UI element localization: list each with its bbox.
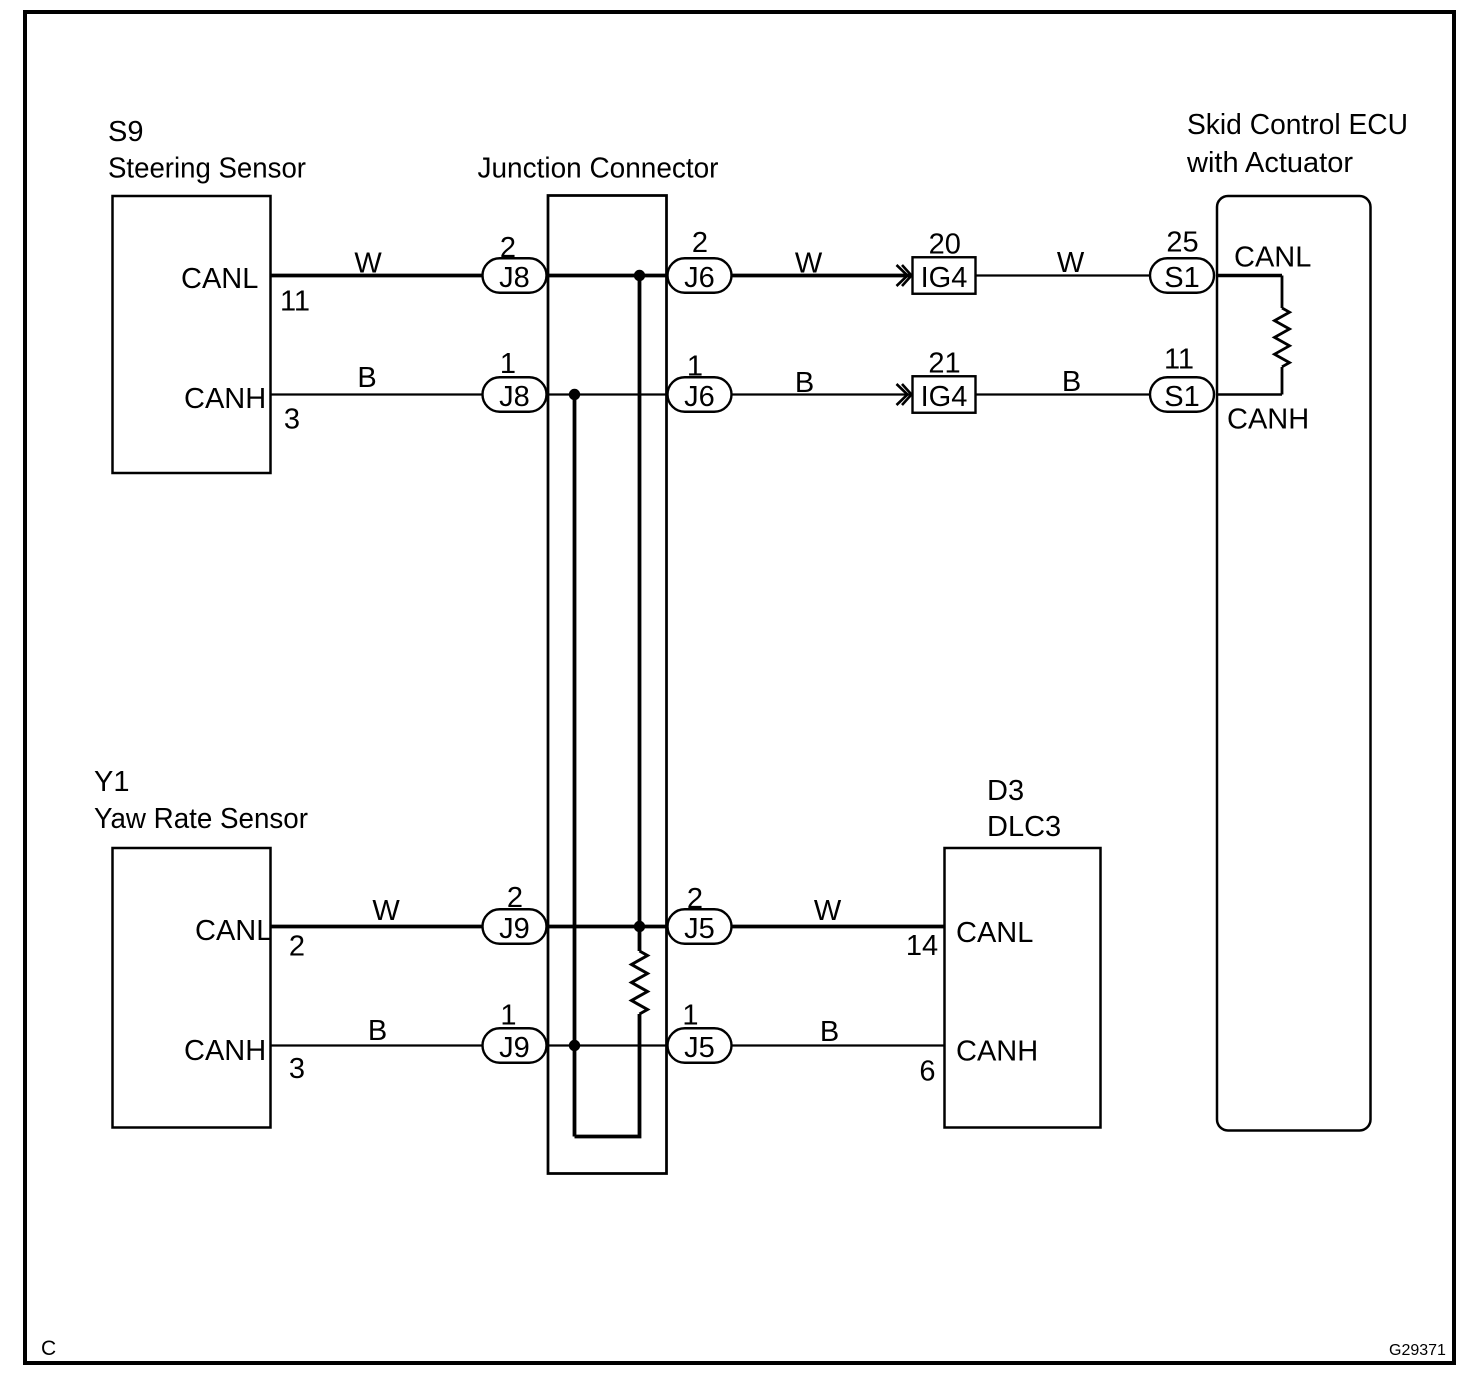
junction internal CANL bus wire (638, 276, 642, 952)
svg-text:25: 25 (1166, 226, 1198, 258)
svg-text:14: 14 (906, 930, 938, 962)
skid control ECU with actuator box (1186, 109, 1408, 1131)
svg-text:11: 11 (280, 285, 310, 317)
svg-text:3: 3 (289, 1053, 305, 1085)
svg-text:C: C (41, 1337, 56, 1360)
svg-text:2: 2 (500, 232, 516, 264)
wire W from J6 to IG4 pin 20 (731, 247, 911, 279)
connector IG4 pin 20 (913, 229, 976, 295)
steering sensor S9 box (108, 116, 306, 473)
Y1 pin 3 CANH label (184, 1035, 305, 1085)
svg-text:Junction Connector: Junction Connector (478, 152, 719, 184)
svg-text:CANL: CANL (195, 915, 272, 947)
wire B from IG4 to S1 pin 11 (977, 366, 1151, 398)
svg-text:IG4: IG4 (921, 262, 968, 294)
node dot J8-J6 CANL (634, 270, 645, 281)
svg-text:B: B (820, 1016, 839, 1048)
wire from J9 pin1 to J5 pin1 (546, 1044, 668, 1046)
DLC3 pin 6 CANH label (919, 1036, 1038, 1088)
S9 pin 3 CANH label (184, 383, 300, 435)
svg-text:B: B (1062, 366, 1081, 398)
svg-text:Skid Control ECU: Skid Control ECU (1187, 109, 1408, 141)
svg-text:20: 20 (929, 229, 961, 261)
svg-text:CANH: CANH (956, 1036, 1038, 1068)
node dot J9-J5 CANL (634, 921, 645, 932)
wire from J8 pin2 to J6 pin2 (546, 274, 668, 278)
Y1 pin 2 CANL label (195, 915, 305, 962)
wire W from J5 to DLC3 pin 14 (731, 895, 945, 927)
svg-text:2: 2 (507, 882, 523, 914)
ECU internal CANH wire (1216, 393, 1282, 395)
DLC3 pin 14 CANL label (906, 917, 1033, 962)
svg-text:J5: J5 (684, 913, 715, 945)
svg-text:W: W (795, 247, 823, 279)
svg-text:J5: J5 (684, 1032, 715, 1064)
svg-text:1: 1 (687, 351, 703, 383)
splice chevron into IG4 pin 20 (897, 265, 912, 286)
svg-text:1: 1 (500, 1000, 516, 1032)
svg-text:W: W (1057, 247, 1085, 279)
svg-text:W: W (354, 247, 382, 279)
svg-text:2: 2 (687, 883, 703, 915)
svg-text:IG4: IG4 (921, 381, 968, 413)
svg-text:S9: S9 (108, 116, 143, 148)
svg-text:B: B (795, 367, 814, 399)
svg-text:DLC3: DLC3 (987, 811, 1061, 843)
svg-text:CANL: CANL (956, 917, 1033, 949)
svg-text:CANH: CANH (1227, 404, 1309, 436)
svg-text:CANL: CANL (1234, 242, 1311, 274)
junction connector box (478, 152, 719, 1173)
DLC3 connector D3 box (945, 775, 1101, 1128)
wire W from S9 CANL to J8 (271, 247, 483, 279)
node dot J8-J6 CANH (569, 389, 580, 400)
node dot J9-J5 CANH (569, 1040, 580, 1051)
svg-text:1: 1 (500, 348, 516, 380)
connector J6 pin 1 (668, 351, 732, 414)
connector J9 pin 2 (483, 882, 547, 945)
connector IG4 pin 21 (913, 348, 976, 414)
svg-text:G29371: G29371 (1389, 1342, 1446, 1359)
connector S1 pin 11 (1150, 344, 1214, 414)
wire W from IG4 to S1 pin 25 (977, 247, 1151, 279)
svg-text:J6: J6 (684, 381, 715, 413)
svg-text:CANH: CANH (184, 1035, 266, 1067)
wire from J9 pin2 to J5 pin2 (546, 925, 668, 929)
resistor in skid control ECU (1275, 276, 1290, 395)
connector J8 pin 2 (483, 232, 547, 294)
svg-text:J8: J8 (499, 262, 530, 294)
svg-text:D3: D3 (987, 775, 1024, 807)
wire B from S9 CANH to J8 (271, 362, 483, 394)
svg-text:B: B (357, 362, 376, 394)
S9 pin 11 CANL label (181, 263, 310, 317)
svg-text:2: 2 (692, 227, 708, 259)
connector S1 pin 25 (1150, 226, 1214, 294)
svg-text:S1: S1 (1164, 381, 1199, 413)
svg-text:6: 6 (919, 1056, 935, 1088)
yaw rate sensor Y1 box (94, 766, 308, 1128)
junction internal CANH bus wire (573, 395, 577, 1137)
connector J5 pin 2 (668, 883, 732, 945)
connector J9 pin 1 (483, 1000, 547, 1065)
wire from J8 pin1 to J6 pin1 (546, 393, 668, 395)
ECU internal CANL wire (1216, 274, 1282, 278)
svg-text:3: 3 (284, 403, 300, 435)
svg-text:S1: S1 (1164, 262, 1199, 294)
svg-text:J9: J9 (499, 1032, 530, 1064)
wire B from J6 to IG4 pin 21 (731, 367, 911, 399)
svg-text:Y1: Y1 (94, 766, 129, 798)
splice chevron into IG4 pin 21 (897, 384, 912, 405)
svg-text:W: W (372, 895, 400, 927)
connector J8 pin 1 (483, 348, 547, 413)
wire W from Y1 CANL to J9 (271, 895, 483, 927)
svg-text:2: 2 (289, 930, 305, 962)
svg-text:J8: J8 (499, 381, 530, 413)
svg-text:with Actuator: with Actuator (1186, 147, 1353, 179)
junction internal wire below resistor (575, 1014, 640, 1137)
svg-text:Yaw Rate Sensor: Yaw Rate Sensor (94, 803, 308, 835)
svg-text:CANH: CANH (184, 383, 266, 415)
wire B from Y1 CANH to J9 (271, 1015, 483, 1047)
svg-text:J9: J9 (499, 913, 530, 945)
svg-text:B: B (368, 1015, 387, 1047)
svg-text:21: 21 (928, 348, 960, 380)
svg-text:11: 11 (1164, 344, 1194, 376)
svg-text:J6: J6 (684, 262, 715, 294)
svg-text:Steering Sensor: Steering Sensor (108, 153, 306, 185)
resistor in junction connector (632, 951, 648, 1014)
svg-text:1: 1 (682, 1000, 698, 1032)
connector J5 pin 1 (668, 1000, 732, 1065)
svg-text:W: W (814, 895, 842, 927)
connector J6 pin 2 (668, 227, 732, 294)
wire B from J5 to DLC3 pin 6 (731, 1016, 945, 1048)
svg-text:CANL: CANL (181, 263, 258, 295)
